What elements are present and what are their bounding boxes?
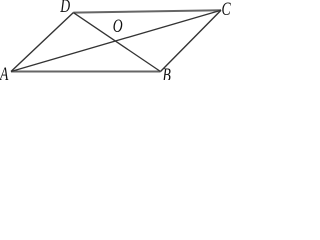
svg-text:A: A <box>0 63 9 80</box>
wire diagonal AC <box>11 10 221 71</box>
wire side DC (top edge) <box>73 10 221 12</box>
svg-text:B: B <box>163 64 171 80</box>
wire side BC (right edge) <box>161 10 222 71</box>
svg-text:D: D <box>59 0 70 16</box>
svg-text:O: O <box>113 15 123 37</box>
wire diagonal BD <box>73 13 160 72</box>
wire side AD (left edge) <box>11 13 73 72</box>
svg-text:C: C <box>222 0 232 19</box>
wire side AB (bottom edge) <box>11 71 161 73</box>
